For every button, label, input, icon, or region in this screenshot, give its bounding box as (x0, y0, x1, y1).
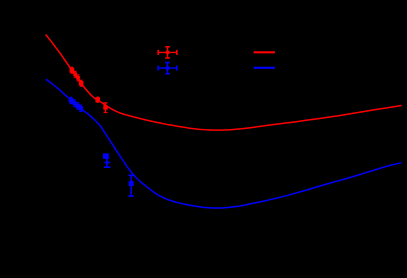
blue data point 3 (75, 103, 79, 109)
blue data point 4 (79, 105, 83, 111)
blue data point 1 (69, 97, 74, 103)
blue data point 5 (103, 153, 111, 167)
legend blue errorbar marker (158, 63, 177, 74)
red curve (upper band) (46, 35, 401, 130)
blue curve (lower band) (47, 80, 402, 208)
red data point 2 (73, 71, 77, 77)
red data point 4 (79, 80, 84, 86)
legend red line sample (254, 51, 275, 53)
blue data point 6 (128, 175, 133, 196)
red data point 1 (70, 67, 75, 73)
red data point 5 (95, 97, 100, 102)
legend red errorbar marker (158, 47, 177, 58)
red data point 3 (76, 75, 80, 81)
blue data point 2 (72, 100, 76, 106)
red data point 6 (103, 103, 107, 113)
legend blue line sample (254, 67, 275, 69)
